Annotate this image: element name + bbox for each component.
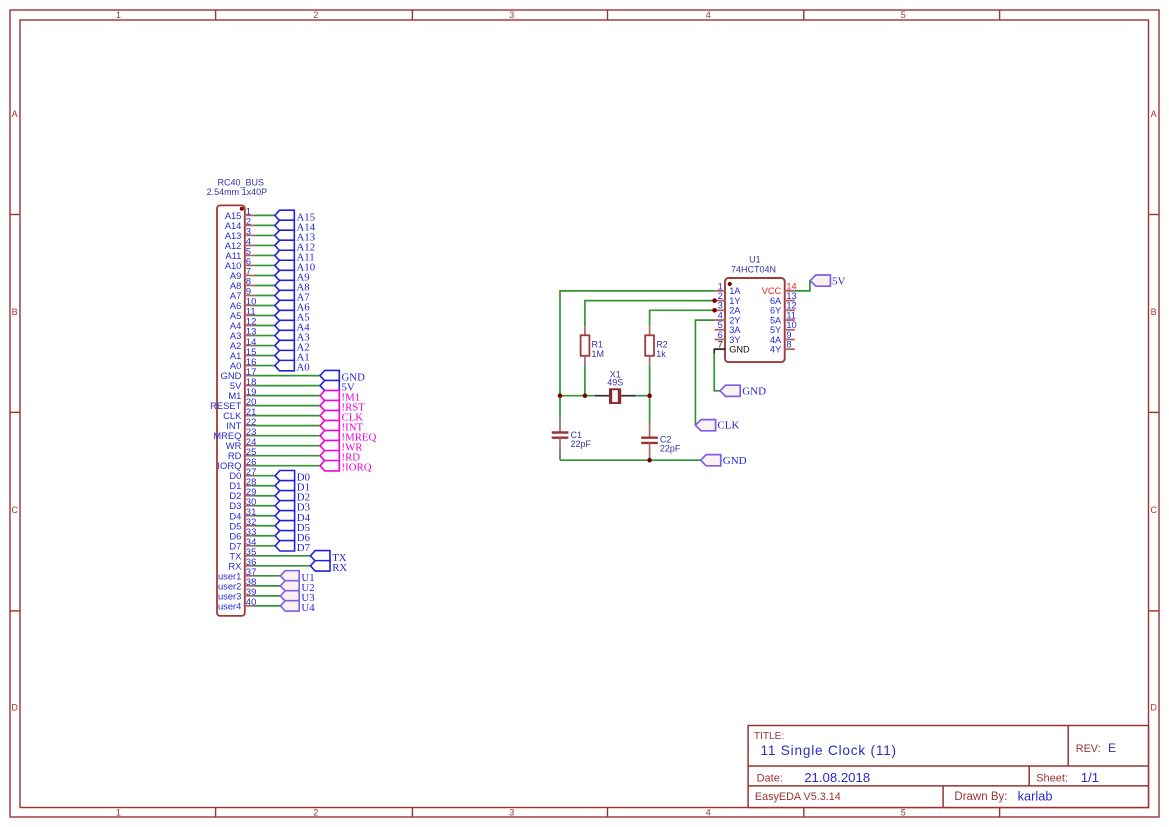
svg-text:REV:: REV: <box>1076 743 1101 755</box>
junction <box>647 393 652 398</box>
resistor R1 top lead <box>584 326 586 335</box>
pin 27 (D0) stub <box>245 475 255 477</box>
net flag U1 <box>280 571 299 581</box>
svg-text:C: C <box>1150 505 1157 515</box>
wire <box>255 445 321 447</box>
svg-text:3Y: 3Y <box>729 335 740 345</box>
svg-text:GND: GND <box>742 386 766 398</box>
wire <box>255 305 275 307</box>
svg-text:2A: 2A <box>729 306 741 316</box>
crystal X1 right lead <box>621 395 636 397</box>
resistor R2 bottom lead <box>649 356 651 366</box>
svg-text:12: 12 <box>786 301 796 311</box>
wire <box>255 315 275 317</box>
net flag U3 <box>280 591 299 601</box>
wire 2A net horizontal <box>650 310 715 326</box>
svg-text:6: 6 <box>718 330 723 340</box>
wire <box>255 595 281 597</box>
wire U1 GND pin elbow <box>714 349 725 353</box>
svg-text:Sheet:: Sheet: <box>1036 773 1068 785</box>
net flag A0 <box>275 360 295 370</box>
net flag !INT <box>320 420 339 430</box>
svg-text:user4: user4 <box>218 600 241 611</box>
net flag !MREQ <box>320 430 339 440</box>
pin 16 (A0) stub <box>245 365 255 367</box>
svg-text:11: 11 <box>786 310 796 320</box>
net flag !M1 <box>320 390 339 400</box>
U1 pin 12 stub <box>785 309 795 311</box>
svg-text:1k: 1k <box>656 349 666 359</box>
connector P1 pin-1 dot <box>240 207 244 211</box>
capacitor C2 top lead <box>649 423 651 438</box>
wire <box>255 465 321 467</box>
capacitor C1 bottom lead <box>559 438 561 454</box>
svg-text:10: 10 <box>786 320 796 330</box>
junction <box>712 298 717 303</box>
wire <box>255 224 275 226</box>
net flag D5 <box>275 521 295 531</box>
crystal X1 left lead <box>595 395 609 397</box>
svg-text:A0: A0 <box>297 362 310 374</box>
wire <box>255 294 275 296</box>
wire <box>255 585 281 587</box>
pin 15 (A1) stub <box>245 355 255 357</box>
svg-text:karlab: karlab <box>1018 789 1053 804</box>
pin 13 (A3) stub <box>245 335 255 337</box>
wire <box>255 425 321 427</box>
net flag CLK <box>320 410 339 420</box>
pin 1 (A15) stub <box>245 214 255 216</box>
net flag CLK <box>695 420 715 431</box>
resistor R1 bottom lead <box>584 356 586 366</box>
connector P1 body <box>217 205 245 616</box>
svg-text:2: 2 <box>313 10 318 20</box>
net flag 5V <box>810 275 830 286</box>
U1 pin 10 stub <box>785 329 795 331</box>
wire <box>255 234 275 236</box>
svg-text:4A: 4A <box>770 335 782 345</box>
svg-text:1M: 1M <box>592 349 605 359</box>
wire R2 to crystal row <box>649 366 651 396</box>
pin 8 (A8) stub <box>245 284 255 286</box>
wire 2Y to CLK flag <box>695 320 714 425</box>
svg-text:GND: GND <box>723 455 747 467</box>
wire <box>255 395 321 397</box>
wire <box>255 505 276 507</box>
wire <box>255 405 321 407</box>
U1 pin 5 stub <box>715 329 726 331</box>
junction <box>583 393 588 398</box>
svg-text:3: 3 <box>718 301 723 311</box>
svg-text:U4: U4 <box>301 602 315 614</box>
wire R1 to crystal row <box>584 366 586 396</box>
net flag !RD <box>320 450 339 460</box>
wire <box>255 214 275 216</box>
net flag A11 <box>275 250 295 260</box>
net flag D2 <box>275 491 295 501</box>
svg-text:U1: U1 <box>749 254 761 264</box>
svg-text:R1: R1 <box>592 340 604 350</box>
wire <box>255 435 321 437</box>
wire crystal row left <box>560 395 595 397</box>
wire <box>255 274 275 276</box>
wire <box>255 455 321 457</box>
svg-text:22pF: 22pF <box>660 444 681 454</box>
svg-text:1A: 1A <box>729 286 741 296</box>
wire 1Y net horizontal <box>585 301 715 327</box>
svg-text:2: 2 <box>718 291 723 301</box>
wire <box>255 254 275 256</box>
capacitor C2 <box>641 438 658 443</box>
junction <box>647 458 652 463</box>
svg-text:3: 3 <box>509 10 514 20</box>
junction <box>558 393 563 398</box>
wire 1A net <box>560 291 715 417</box>
svg-text:RX: RX <box>332 562 347 574</box>
U1 pin 9 stub <box>785 338 795 340</box>
svg-text:1Y: 1Y <box>729 296 740 306</box>
pin 34 (D7) stub <box>245 545 255 547</box>
svg-text:22pF: 22pF <box>571 439 592 449</box>
wire <box>255 415 321 417</box>
net flag GND (bottom rail) <box>701 455 721 466</box>
wire C2 to bottom rail <box>649 458 651 461</box>
svg-text:5A: 5A <box>770 315 782 325</box>
svg-text:1: 1 <box>718 281 723 291</box>
net flag A7 <box>275 290 295 300</box>
IC U1 pin-1 dot <box>728 282 732 286</box>
net flag A8 <box>275 280 295 290</box>
svg-text:4Y: 4Y <box>770 345 781 355</box>
U1 pin 2 stub <box>715 300 726 302</box>
IC U1 body <box>725 278 785 362</box>
svg-text:7: 7 <box>718 340 723 350</box>
svg-text:EasyEDA V5.3.14: EasyEDA V5.3.14 <box>755 791 841 803</box>
net flag RX <box>310 561 330 571</box>
svg-text:1: 1 <box>116 10 121 20</box>
svg-text:CLK: CLK <box>717 420 739 432</box>
U1 pin 4 stub <box>715 319 726 321</box>
pin 17 (GND) stub <box>245 375 255 377</box>
net flag A6 <box>275 300 295 310</box>
wire <box>255 485 276 487</box>
net flag !WR <box>320 440 339 450</box>
wire <box>255 475 276 477</box>
wire <box>255 515 276 517</box>
wire <box>255 605 281 607</box>
svg-text:1: 1 <box>116 808 121 818</box>
pin 24 (WR) stub <box>245 445 255 447</box>
svg-text:Date:: Date: <box>757 773 783 785</box>
net flag A2 <box>275 340 295 350</box>
pin 26 (IORQ) stub <box>245 465 255 467</box>
pin 6 (A10) stub <box>245 264 255 266</box>
svg-text:D: D <box>1150 702 1157 712</box>
net flag D4 <box>275 511 295 521</box>
pin 25 (RD) stub <box>245 455 255 457</box>
net flag D3 <box>275 501 295 511</box>
pin 30 (D3) stub <box>245 505 255 507</box>
pin 22 (INT) stub <box>245 425 255 427</box>
wire <box>255 365 275 367</box>
svg-text:21.08.2018: 21.08.2018 <box>804 770 870 785</box>
U1 pin 7 stub <box>715 348 726 350</box>
svg-text:8: 8 <box>786 340 791 350</box>
svg-text:TITLE:: TITLE: <box>754 731 784 742</box>
svg-text:5: 5 <box>901 808 906 818</box>
junction <box>712 308 717 313</box>
net flag A9 <box>275 270 295 280</box>
U1 pin 8 stub <box>785 348 795 350</box>
wire crystal row right <box>636 395 650 397</box>
pin 20 (RESET) stub <box>245 405 255 407</box>
wire <box>255 375 321 377</box>
svg-text:11 Single Clock (11): 11 Single Clock (11) <box>761 743 897 758</box>
pin 32 (D5) stub <box>245 525 255 527</box>
svg-text:C: C <box>11 505 18 515</box>
resistor R2 top lead <box>649 326 651 335</box>
svg-text:4: 4 <box>706 808 711 818</box>
svg-text:VCC: VCC <box>762 286 782 296</box>
svg-text:B: B <box>1151 307 1157 317</box>
pin 28 (D1) stub <box>245 485 255 487</box>
title block <box>748 726 1148 808</box>
svg-text:!IORQ: !IORQ <box>342 462 372 474</box>
svg-text:5: 5 <box>718 320 723 330</box>
wire bottom rail <box>560 459 701 461</box>
svg-text:6A: 6A <box>770 296 782 306</box>
net flag A10 <box>275 260 295 270</box>
svg-text:6Y: 6Y <box>770 306 781 316</box>
svg-text:4: 4 <box>706 10 711 20</box>
U1 pin 11 stub <box>785 319 795 321</box>
pin 2 (A14) stub <box>245 224 255 226</box>
U1 pin 6 stub <box>715 338 726 340</box>
pin 35 (TX) stub <box>245 555 255 557</box>
svg-text:5: 5 <box>901 10 906 20</box>
svg-text:Drawn By:: Drawn By: <box>954 791 1007 803</box>
net flag D0 <box>275 471 295 481</box>
wire <box>255 495 276 497</box>
svg-text:D7: D7 <box>297 542 311 554</box>
pin 23 (MREQ) stub <box>245 435 255 437</box>
crystal X1 <box>609 388 621 404</box>
net flag A14 <box>275 220 295 230</box>
wire <box>255 244 275 246</box>
net flag A1 <box>275 350 295 360</box>
pin 19 (M1) stub <box>245 395 255 397</box>
svg-text:3A: 3A <box>729 325 741 335</box>
capacitor C2 bottom lead <box>649 443 651 458</box>
net flag !IORQ <box>320 461 339 471</box>
net flag D1 <box>275 481 295 491</box>
svg-text:3: 3 <box>509 808 514 818</box>
wire U1 GND down <box>714 354 720 391</box>
wire <box>255 325 275 327</box>
svg-text:5Y: 5Y <box>770 325 781 335</box>
svg-text:9: 9 <box>786 330 791 340</box>
svg-text:4: 4 <box>718 310 723 320</box>
net flag 5V <box>320 380 339 390</box>
U1 pin 3 stub <box>715 309 726 311</box>
pin 7 (A9) stub <box>245 274 255 276</box>
wire <box>255 575 281 577</box>
resistor R2 <box>645 335 654 356</box>
pin 4 (A12) stub <box>245 244 255 246</box>
svg-text:2Y: 2Y <box>729 315 740 325</box>
net flag A13 <box>275 230 295 240</box>
pin 21 (CLK) stub <box>245 415 255 417</box>
svg-text:E: E <box>1108 741 1116 755</box>
pin 39 (user3) stub <box>245 595 255 597</box>
wire <box>255 565 311 567</box>
pin 12 (A4) stub <box>245 325 255 327</box>
svg-text:B: B <box>12 307 18 317</box>
wire <box>255 284 275 286</box>
net flag A5 <box>275 310 295 320</box>
pin 9 (A7) stub <box>245 294 255 296</box>
svg-text:A: A <box>1151 109 1157 119</box>
svg-text:2: 2 <box>313 808 318 818</box>
svg-text:5V: 5V <box>832 275 846 287</box>
svg-text:R2: R2 <box>656 340 668 350</box>
svg-text:A: A <box>12 109 18 119</box>
pin 11 (A5) stub <box>245 315 255 317</box>
svg-text:14: 14 <box>786 281 796 291</box>
net flag D6 <box>275 531 295 541</box>
svg-text:GND: GND <box>729 345 750 355</box>
svg-text:D: D <box>11 702 18 712</box>
svg-text:13: 13 <box>786 291 796 301</box>
net flag TX <box>310 551 330 561</box>
wire R2 row to C2 <box>649 396 651 423</box>
pin 36 (RX) stub <box>245 565 255 567</box>
pin 18 (5V) stub <box>245 385 255 387</box>
pin 33 (D6) stub <box>245 535 255 537</box>
U1 pin 1 stub <box>715 290 726 292</box>
pin 29 (D2) stub <box>245 495 255 497</box>
wire <box>255 355 275 357</box>
wire <box>255 345 275 347</box>
net flag A15 <box>275 210 295 220</box>
U1 pin 13 stub <box>785 300 795 302</box>
net flag A3 <box>275 330 295 340</box>
wire C1 to bottom rail <box>559 453 561 460</box>
wire <box>255 525 276 527</box>
wire <box>255 555 311 557</box>
wire <box>255 545 276 547</box>
capacitor C1 top lead <box>559 417 561 433</box>
pin 40 (user4) stub <box>245 605 255 607</box>
wire <box>255 535 276 537</box>
net flag U4 <box>280 601 299 611</box>
net flag U2 <box>280 581 299 591</box>
net flag GND (U1 pin7) <box>720 385 740 396</box>
U1 pin 14 stub <box>785 290 795 292</box>
wire <box>255 264 275 266</box>
pin 37 (user1) stub <box>245 575 255 577</box>
svg-text:74HCT04N: 74HCT04N <box>731 264 776 274</box>
svg-text:2.54mm 1x40P: 2.54mm 1x40P <box>207 187 268 197</box>
resistor R1 <box>581 335 590 356</box>
pin 3 (A13) stub <box>245 234 255 236</box>
pin 31 (D4) stub <box>245 515 255 517</box>
pin 5 (A11) stub <box>245 254 255 256</box>
pin 38 (user2) stub <box>245 585 255 587</box>
net flag !RST <box>320 400 339 410</box>
pin 10 (A6) stub <box>245 305 255 307</box>
wire <box>255 385 321 387</box>
capacitor C1 <box>552 433 569 438</box>
net flag D7 <box>275 541 295 551</box>
svg-text:1/1: 1/1 <box>1081 770 1099 785</box>
net flag GND <box>320 370 339 380</box>
net flag A4 <box>275 320 295 330</box>
net flag A12 <box>275 240 295 250</box>
wire <box>255 335 275 337</box>
pin 14 (A2) stub <box>245 345 255 347</box>
svg-text:49S: 49S <box>607 377 623 387</box>
wire VCC to 5V flag <box>795 281 810 291</box>
